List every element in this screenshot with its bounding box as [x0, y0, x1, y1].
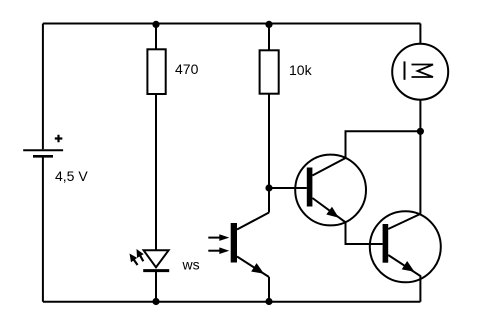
- svg-text:470: 470: [175, 61, 199, 77]
- svg-text:ws: ws: [182, 257, 200, 273]
- svg-text:4,5 V: 4,5 V: [55, 168, 88, 184]
- svg-text:10k: 10k: [289, 62, 313, 78]
